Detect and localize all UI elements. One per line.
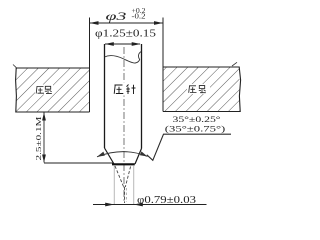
svg-text:φ1.25±0.15: φ1.25±0.15	[95, 29, 156, 40]
svg-text:-0.2: -0.2	[132, 13, 147, 20]
svg-text:φ3: φ3	[106, 11, 127, 23]
svg-text:(35°±0.75°): (35°±0.75°)	[165, 125, 226, 134]
svg-text:35°±0.25°: 35°±0.25°	[173, 115, 221, 124]
svg-text:φ0.79±0.03: φ0.79±0.03	[137, 195, 196, 206]
svg-text:2.5±0.1M: 2.5±0.1M	[34, 116, 43, 160]
